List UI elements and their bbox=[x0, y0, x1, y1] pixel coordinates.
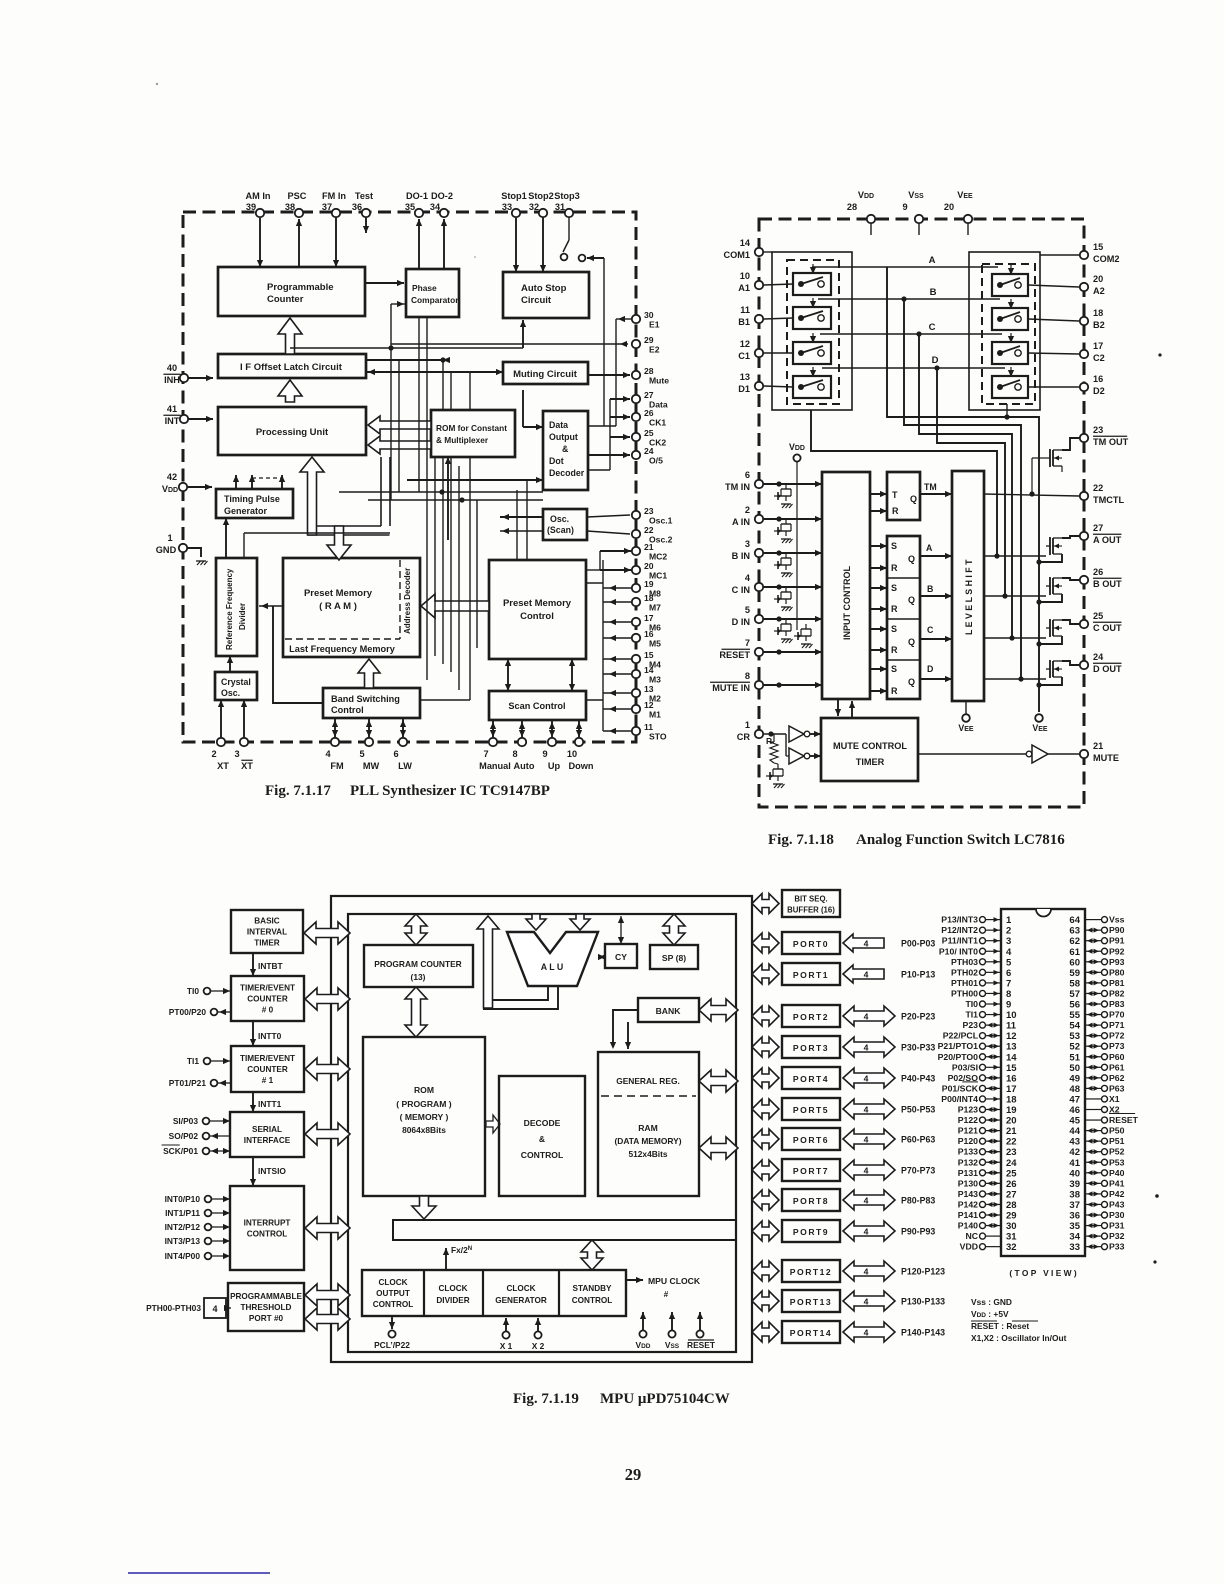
svg-text:8: 8 bbox=[1006, 989, 1011, 1000]
wire into Data Output lower bbox=[407, 479, 543, 481]
wire pin36 Test stub bbox=[365, 218, 367, 233]
svg-text:Preset Memory: Preset Memory bbox=[503, 598, 572, 609]
svg-text:PORT8: PORT8 bbox=[793, 1196, 829, 1206]
VEE terminal under Level Shift bbox=[965, 701, 967, 714]
vertical bus line C bbox=[418, 317, 420, 492]
wire into Data Output upper bbox=[522, 390, 524, 427]
svg-text:SERIAL: SERIAL bbox=[252, 1125, 282, 1134]
svg-text:M3: M3 bbox=[649, 675, 661, 685]
svg-text:49: 49 bbox=[1069, 1073, 1080, 1084]
wire CR branch bbox=[785, 734, 787, 756]
wire Mute Control Timer to inverter bbox=[918, 753, 1026, 755]
bus arrow to block Port13 bbox=[752, 1291, 779, 1311]
width tag 4 for PORT13 bbox=[843, 1291, 895, 1311]
block Muting Circuit bbox=[503, 362, 588, 384]
svg-text:S: S bbox=[891, 624, 897, 634]
figure 7.1.17 dashed IC boundary TC9147BP bbox=[183, 212, 636, 742]
svg-text:E2: E2 bbox=[649, 345, 660, 355]
bus arrow to block Port12 bbox=[752, 1261, 779, 1281]
switch C2 bbox=[992, 342, 1028, 364]
pin 15 COM2 (LC7816 right) bbox=[1080, 251, 1088, 259]
svg-text:D: D bbox=[927, 664, 933, 674]
svg-text:4: 4 bbox=[864, 1074, 869, 1084]
pin 3 B IN (LC7816 left) bbox=[755, 549, 763, 557]
svg-text:P132: P132 bbox=[958, 1157, 978, 1167]
block Port4 bbox=[782, 1067, 840, 1089]
block Auto Stop Circuit bbox=[503, 272, 589, 318]
svg-text:PORT5: PORT5 bbox=[793, 1105, 829, 1115]
svg-text:P121: P121 bbox=[958, 1126, 978, 1136]
svg-text:Dot: Dot bbox=[549, 456, 564, 466]
svg-text:B IN: B IN bbox=[732, 551, 751, 561]
svg-text:Down: Down bbox=[568, 761, 593, 771]
block Port8 bbox=[782, 1189, 840, 1211]
svg-text:Osc.1: Osc.1 bbox=[649, 516, 673, 526]
signal INTT0 bbox=[252, 1021, 254, 1046]
svg-text:THRESHOLD: THRESHOLD bbox=[241, 1303, 292, 1312]
pin 13 M2 bbox=[632, 689, 640, 697]
svg-text:52: 52 bbox=[1069, 1042, 1080, 1053]
pin 28 Mute bbox=[632, 371, 640, 379]
bus arrow to block Port1 bbox=[752, 964, 779, 984]
svg-text:X 1: X 1 bbox=[500, 1341, 513, 1351]
pin 9 Up bbox=[548, 738, 556, 746]
svg-text:P130: P130 bbox=[958, 1178, 978, 1188]
wire input row y652 to Input Control bbox=[764, 651, 822, 653]
pin 5 MW bbox=[365, 738, 373, 746]
svg-text:P20-P23: P20-P23 bbox=[901, 1012, 935, 1022]
svg-text:VDD : +5V: VDD : +5V bbox=[971, 1309, 1009, 1319]
wire horizontal mid bus 1 bbox=[339, 491, 543, 493]
svg-text:P02/SO: P02/SO bbox=[948, 1073, 979, 1083]
svg-text:XT: XT bbox=[217, 761, 229, 771]
svg-text:PCL’/P22: PCL’/P22 bbox=[374, 1340, 410, 1350]
svg-text:Q: Q bbox=[908, 677, 915, 687]
block Port13 bbox=[782, 1290, 840, 1312]
svg-text:2: 2 bbox=[1006, 926, 1011, 937]
wire FET drain to output pin bbox=[1062, 578, 1079, 580]
svg-text:63: 63 bbox=[1069, 926, 1080, 937]
bus arrow Program Counter to ROM bbox=[405, 987, 427, 1037]
bus arrow Programmable Threshold lower bbox=[305, 1308, 350, 1330]
node PT00/P20 bbox=[211, 1009, 218, 1016]
wire TM to Level Shift bbox=[920, 493, 952, 495]
block Preset Memory RAM with Last Frequency Memory and Address Decoder bbox=[283, 558, 420, 657]
svg-text:11: 11 bbox=[740, 305, 750, 315]
pin 4 C IN (LC7816 left) bbox=[755, 583, 763, 591]
svg-text:42: 42 bbox=[1069, 1147, 1080, 1158]
vertical bus line I bbox=[434, 457, 436, 656]
svg-text:(DATA MEMORY): (DATA MEMORY) bbox=[615, 1136, 682, 1146]
svg-text:PT01/P21: PT01/P21 bbox=[169, 1078, 207, 1088]
svg-text:STO: STO bbox=[649, 732, 667, 742]
wire memory pin y622 bbox=[603, 621, 631, 623]
wire right switch to pin bbox=[1028, 319, 1079, 321]
svg-text:1: 1 bbox=[167, 533, 172, 543]
svg-text:18: 18 bbox=[644, 593, 654, 603]
svg-text:Test: Test bbox=[355, 191, 373, 201]
pin 25 C OUT (LC7816 right) bbox=[1080, 620, 1088, 628]
block Band Switching Control bbox=[323, 688, 420, 718]
svg-text:P92: P92 bbox=[1109, 946, 1125, 956]
wire ROM bottom feed bbox=[447, 457, 449, 540]
svg-text:28: 28 bbox=[1006, 1200, 1017, 1211]
pin 11 B1 (LC7816 left) bbox=[755, 315, 763, 323]
svg-text:PORT1: PORT1 bbox=[793, 970, 829, 980]
node SI/P03 bbox=[203, 1118, 210, 1125]
wire input row y619 to Input Control bbox=[764, 618, 822, 620]
svg-text:15: 15 bbox=[644, 650, 654, 660]
node INT4/P00 bbox=[205, 1253, 212, 1260]
svg-text:Output: Output bbox=[549, 432, 578, 442]
wire scan control to rail bbox=[586, 699, 603, 701]
svg-text:4: 4 bbox=[1006, 947, 1012, 958]
block Port9 bbox=[782, 1220, 840, 1242]
pin 24 O/5 bbox=[632, 451, 640, 459]
svg-text:P60: P60 bbox=[1109, 1052, 1125, 1062]
svg-text:13: 13 bbox=[644, 684, 654, 694]
svg-text:P22/PCL: P22/PCL bbox=[943, 1031, 979, 1041]
svg-text:P40-P43: P40-P43 bbox=[901, 1074, 935, 1084]
node INT2/P12 bbox=[205, 1224, 212, 1231]
svg-text:50: 50 bbox=[1069, 1063, 1080, 1074]
svg-text:CONTROL: CONTROL bbox=[521, 1150, 564, 1160]
svg-text:TMCTL: TMCTL bbox=[1093, 495, 1125, 505]
bus arrow to block Port8 bbox=[752, 1190, 779, 1210]
svg-text:Osc.: Osc. bbox=[550, 514, 569, 524]
svg-text:P61: P61 bbox=[1109, 1062, 1125, 1072]
wire reference divider to timing pulse generator bbox=[225, 518, 227, 558]
switch contact at Stop3 bbox=[563, 240, 569, 252]
svg-text:NC: NC bbox=[965, 1231, 978, 1241]
svg-text:33: 33 bbox=[502, 202, 512, 212]
block T R flip flop (TM) bbox=[887, 472, 920, 520]
pin 6 LW bbox=[399, 738, 407, 746]
wire FET source to VEE rail bbox=[1039, 594, 1062, 602]
svg-text:P00/INT4: P00/INT4 bbox=[941, 1094, 978, 1104]
block Scan Control bbox=[489, 691, 586, 720]
svg-text:6: 6 bbox=[745, 470, 750, 480]
wire TMCTL row bbox=[984, 494, 1079, 496]
svg-text:Manual: Manual bbox=[479, 761, 511, 771]
svg-text:CONTROL: CONTROL bbox=[247, 1230, 287, 1239]
svg-text:10: 10 bbox=[740, 271, 750, 281]
svg-text:FM: FM bbox=[330, 761, 344, 771]
svg-text:P73: P73 bbox=[1109, 1041, 1125, 1051]
width tag 4 for PORT4 bbox=[843, 1068, 895, 1088]
svg-text:4: 4 bbox=[864, 1166, 869, 1176]
block Port0 bbox=[782, 932, 840, 954]
bus arrow SP to top bus bbox=[663, 914, 685, 945]
bus arrow RAM to right bus bbox=[699, 1137, 738, 1159]
svg-text:P21/PTO1: P21/PTO1 bbox=[938, 1041, 979, 1051]
bus duct vertical to Processing Unit right bbox=[381, 457, 390, 527]
pin 2 A IN (LC7816 left) bbox=[755, 515, 763, 523]
net B routing bbox=[904, 299, 1021, 679]
width tag 4 for PORT9 bbox=[843, 1221, 895, 1241]
wire scan pins Manual Auto Up Down bbox=[492, 720, 494, 737]
svg-text:P50: P50 bbox=[1109, 1126, 1125, 1136]
svg-text:Comparator: Comparator bbox=[411, 295, 459, 305]
block ROM Program Memory bbox=[363, 1037, 485, 1196]
svg-text:SCK/P01: SCK/P01 bbox=[163, 1146, 198, 1156]
svg-text:SI/P03: SI/P03 bbox=[173, 1116, 198, 1126]
svg-text:A1: A1 bbox=[738, 283, 750, 293]
pin 10 A1 (LC7816 left) bbox=[755, 281, 763, 289]
svg-text:24: 24 bbox=[1093, 652, 1104, 662]
svg-text:40: 40 bbox=[1069, 1168, 1080, 1179]
svg-text:P70-P73: P70-P73 bbox=[901, 1166, 935, 1176]
svg-text:Control: Control bbox=[520, 611, 554, 622]
wires Input Control to latch D bbox=[870, 668, 887, 670]
svg-text:L E V E L S H I F T: L E V E L S H I F T bbox=[964, 559, 974, 635]
svg-text:16: 16 bbox=[1093, 374, 1103, 384]
svg-text:36: 36 bbox=[352, 202, 362, 212]
svg-text:Stop2: Stop2 bbox=[528, 191, 554, 201]
svg-text:PORT6: PORT6 bbox=[793, 1135, 829, 1145]
wire pin34 DO-2 bbox=[443, 219, 445, 269]
input protection FET row y553 bbox=[785, 553, 787, 558]
svg-text:PROGRAM COUNTER: PROGRAM COUNTER bbox=[374, 959, 461, 969]
wire pin32 Stop2 to Auto Stop Circuit bbox=[542, 218, 544, 272]
svg-text:10: 10 bbox=[567, 749, 577, 759]
svg-text:51: 51 bbox=[1069, 1052, 1080, 1063]
svg-text:23: 23 bbox=[1006, 1147, 1017, 1158]
svg-text:P60-P63: P60-P63 bbox=[901, 1135, 935, 1145]
svg-text:TM IN: TM IN bbox=[725, 482, 750, 492]
wire input row y553 to Input Control bbox=[764, 552, 822, 554]
node INT3/P13 bbox=[205, 1238, 212, 1245]
switch B2 bbox=[992, 308, 1028, 330]
svg-text:P120: P120 bbox=[958, 1136, 978, 1146]
wire Muting Circuit to pin 28 Mute bbox=[588, 374, 630, 376]
svg-text:MW: MW bbox=[363, 761, 380, 771]
svg-text:PORT12: PORT12 bbox=[790, 1267, 832, 1277]
net D wire bbox=[822, 367, 1005, 369]
svg-text:16: 16 bbox=[644, 629, 654, 639]
svg-text:P133: P133 bbox=[958, 1147, 978, 1157]
svg-text:12: 12 bbox=[740, 339, 750, 349]
bus duct horizontal below Processing Unit bbox=[308, 526, 390, 535]
wire crystal pins bbox=[220, 700, 222, 737]
wire band switching to reference divider bbox=[273, 606, 323, 703]
wire FET source to VEE rail bbox=[1039, 677, 1062, 685]
svg-text:24: 24 bbox=[644, 446, 654, 456]
svg-text:512x4Bits: 512x4Bits bbox=[628, 1149, 667, 1159]
svg-text:VSS: VSS bbox=[665, 1340, 680, 1350]
svg-text:VDD: VDD bbox=[960, 1242, 978, 1252]
pin 23 Osc.1 bbox=[632, 511, 640, 519]
svg-text:12: 12 bbox=[644, 700, 654, 710]
bus arrow ROM to Processing Unit upper bbox=[368, 416, 431, 434]
svg-text:34: 34 bbox=[1069, 1232, 1080, 1243]
svg-text:CONTROL: CONTROL bbox=[572, 1296, 612, 1305]
svg-text:MPU CLOCK: MPU CLOCK bbox=[648, 1276, 701, 1286]
svg-text:B OUT: B OUT bbox=[1093, 579, 1122, 589]
svg-text:MUTE CONTROL: MUTE CONTROL bbox=[833, 741, 907, 751]
wires Input Control to latch C bbox=[870, 628, 887, 630]
width tag 4 for PORT14 bbox=[843, 1322, 895, 1342]
svg-text:P72: P72 bbox=[1109, 1031, 1125, 1041]
svg-text:5: 5 bbox=[745, 605, 750, 615]
svg-text:C: C bbox=[927, 625, 934, 635]
svg-text:CY: CY bbox=[615, 952, 627, 962]
wires Input Control to latch A bbox=[870, 545, 887, 547]
svg-text:P123: P123 bbox=[958, 1105, 978, 1115]
svg-text:M1: M1 bbox=[649, 710, 661, 720]
svg-text:20: 20 bbox=[1006, 1116, 1017, 1127]
net B wire bbox=[818, 298, 1000, 300]
pin Vss (MPU) bbox=[671, 1312, 673, 1330]
svg-text:Band Switching: Band Switching bbox=[331, 694, 400, 704]
bus arrow Interrupt Control bbox=[305, 1217, 350, 1239]
wire rail to Preset Memory Control bbox=[586, 582, 603, 584]
block Interrupt Control bbox=[230, 1186, 304, 1270]
input protection FET row y619 bbox=[785, 619, 787, 624]
net C routing bbox=[919, 334, 1012, 638]
wire left pin to switch bbox=[764, 352, 793, 354]
wire stop3 switch drop bbox=[603, 258, 605, 426]
svg-text:25: 25 bbox=[644, 428, 654, 438]
svg-text:A OUT: A OUT bbox=[1093, 535, 1122, 545]
wire pin31 Stop3 switch bbox=[568, 218, 570, 240]
wire scan control to preset memory control right bbox=[571, 659, 573, 691]
svg-text:37: 37 bbox=[322, 202, 332, 212]
svg-text:8: 8 bbox=[745, 671, 750, 681]
block Data Output and Dot Decoder bbox=[543, 411, 588, 490]
svg-text:29: 29 bbox=[625, 1465, 642, 1484]
svg-text:VDD: VDD bbox=[162, 484, 178, 494]
svg-text:Divider: Divider bbox=[238, 603, 247, 630]
svg-text:Auto: Auto bbox=[514, 761, 535, 771]
width tag 4 for PORT3 bbox=[843, 1037, 895, 1057]
DIP package uPD75104CW body (top view) bbox=[1001, 909, 1085, 1256]
svg-text:P143: P143 bbox=[958, 1189, 978, 1199]
svg-text:TIMER/EVENT: TIMER/EVENT bbox=[240, 984, 295, 993]
svg-text:P120-P123: P120-P123 bbox=[901, 1267, 945, 1277]
svg-text:P142: P142 bbox=[958, 1199, 978, 1209]
width tag 4 for PORT0 bbox=[843, 934, 884, 952]
pin 7 Manual bbox=[489, 738, 497, 746]
svg-text:Q: Q bbox=[908, 637, 915, 647]
MPU inner bus frame bbox=[348, 914, 736, 1352]
vertical bus line F bbox=[458, 466, 460, 690]
pin 23 TM OUT (LC7816 right) bbox=[1080, 434, 1088, 442]
svg-text:C: C bbox=[929, 322, 936, 333]
svg-text:26: 26 bbox=[1006, 1179, 1017, 1190]
svg-text:Vss : GND: Vss : GND bbox=[971, 1297, 1012, 1307]
svg-text:4: 4 bbox=[864, 1135, 869, 1145]
svg-text:Stop1: Stop1 bbox=[501, 191, 527, 201]
svg-text:&: & bbox=[539, 1134, 545, 1144]
svg-text:14: 14 bbox=[1006, 1052, 1017, 1063]
svg-text:Circuit: Circuit bbox=[521, 295, 552, 306]
svg-text:22: 22 bbox=[1093, 483, 1103, 493]
svg-text:CLOCK: CLOCK bbox=[438, 1284, 467, 1293]
switch C1 bbox=[793, 342, 831, 364]
svg-text:31: 31 bbox=[555, 202, 565, 212]
svg-text:30: 30 bbox=[644, 310, 654, 320]
svg-text:PORT9: PORT9 bbox=[793, 1227, 829, 1237]
block Port12 bbox=[782, 1260, 840, 1282]
pin 25 CK2 bbox=[632, 433, 640, 441]
svg-text:CLOCK: CLOCK bbox=[378, 1278, 407, 1287]
svg-text:32: 32 bbox=[529, 202, 539, 212]
svg-text:& Multiplexer: & Multiplexer bbox=[436, 435, 489, 445]
svg-text:P10-P13: P10-P13 bbox=[901, 970, 935, 980]
svg-text:P51: P51 bbox=[1109, 1136, 1125, 1146]
svg-text:INT0/P10: INT0/P10 bbox=[165, 1194, 201, 1204]
D OUT FET bbox=[1049, 660, 1051, 678]
wire latch D to Level Shift bbox=[920, 678, 952, 680]
pin 3 XT bbox=[240, 738, 248, 746]
wire COM1 to switch group bbox=[764, 251, 772, 253]
svg-text:DO-2: DO-2 bbox=[431, 191, 453, 201]
svg-text:LW: LW bbox=[398, 761, 412, 771]
bus arrow Preset Memory Control to Address Decoder bbox=[421, 594, 489, 618]
wire Osc Scan to pin 23 bbox=[587, 515, 630, 517]
svg-text:34: 34 bbox=[430, 202, 441, 212]
svg-text:X2: X2 bbox=[1109, 1105, 1120, 1115]
bus arrow to block Port2 bbox=[752, 1006, 779, 1026]
block Clock Output Control / Divider / Generator / Standby row bbox=[362, 1270, 626, 1316]
pin 14 COM1 (LC7816 left) bbox=[755, 248, 763, 256]
svg-text:P43: P43 bbox=[1109, 1199, 1125, 1209]
svg-text:C IN: C IN bbox=[732, 585, 751, 595]
bus arrow ROM to Processing Unit lower bbox=[368, 436, 431, 454]
wire refdiv input from left bbox=[259, 605, 283, 607]
svg-text:INTT0: INTT0 bbox=[258, 1031, 282, 1041]
svg-text:R: R bbox=[891, 604, 898, 614]
svg-text:Processing Unit: Processing Unit bbox=[256, 427, 329, 438]
svg-text:INT1/P11: INT1/P11 bbox=[165, 1208, 200, 1218]
svg-text:PORT #0: PORT #0 bbox=[249, 1314, 284, 1323]
width tag 4 for PORT7 bbox=[843, 1160, 895, 1180]
pin 19 M8 bbox=[632, 584, 640, 592]
svg-text:13: 13 bbox=[1006, 1042, 1017, 1053]
input protection FET row y587 bbox=[785, 587, 787, 592]
pin 30 E1 bbox=[632, 315, 640, 323]
svg-text:11: 11 bbox=[1006, 1021, 1017, 1032]
pin 13 D1 (LC7816 left) bbox=[755, 382, 763, 390]
pin 26 CK1 bbox=[632, 413, 640, 421]
wire right switch to pin bbox=[1028, 353, 1079, 354]
svg-text:D1: D1 bbox=[738, 384, 750, 394]
wire Osc Scan to pin 22 bbox=[587, 531, 630, 534]
svg-text:P12/INT2: P12/INT2 bbox=[941, 925, 978, 935]
input protection FET row y484 bbox=[785, 484, 787, 489]
svg-text:M5: M5 bbox=[649, 639, 661, 649]
bus arrow Processing Unit vertical link up bbox=[300, 457, 324, 535]
svg-text:&: & bbox=[562, 444, 569, 454]
vertical bus line D bbox=[442, 360, 444, 410]
svg-text:Phase: Phase bbox=[412, 283, 437, 293]
svg-text:Stop3: Stop3 bbox=[554, 191, 580, 201]
svg-text:P20/PTO0: P20/PTO0 bbox=[938, 1052, 979, 1062]
svg-text:BIT SEQ.: BIT SEQ. bbox=[794, 895, 827, 904]
svg-text:( MEMORY ): ( MEMORY ) bbox=[400, 1112, 449, 1122]
svg-text:18: 18 bbox=[1093, 308, 1103, 318]
block Preset Memory Control bbox=[489, 560, 586, 659]
svg-text:21: 21 bbox=[1006, 1126, 1017, 1137]
bus arrow Program Counter to top bus bbox=[405, 914, 427, 945]
svg-text:Last Frequency Memory: Last Frequency Memory bbox=[289, 644, 396, 654]
svg-text:PTH00: PTH00 bbox=[951, 988, 978, 998]
wire Data Output to pin 24 O/5 bbox=[588, 454, 630, 456]
svg-text:M7: M7 bbox=[649, 603, 661, 613]
svg-text:P50-P53: P50-P53 bbox=[901, 1105, 935, 1115]
speck marks bbox=[1158, 353, 1161, 356]
